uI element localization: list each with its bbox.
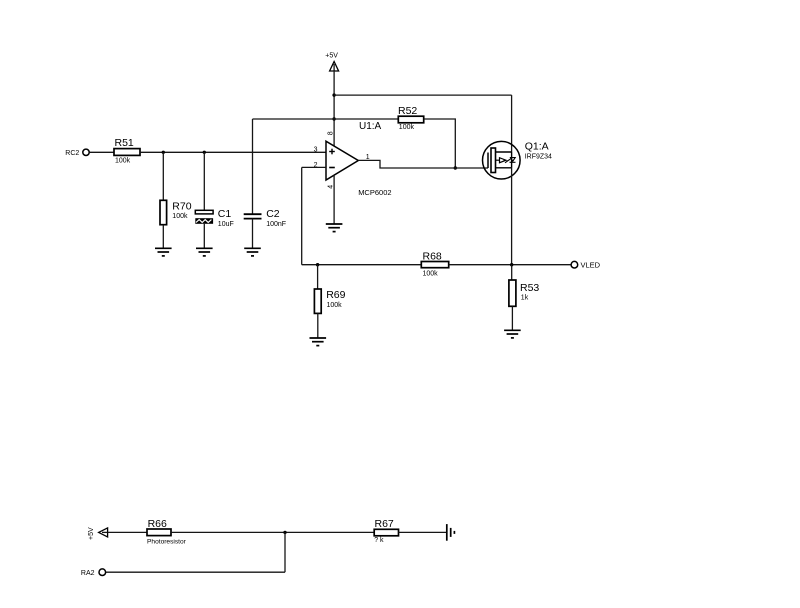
- junction VLED net / R53 / Q1 drain: [510, 263, 513, 266]
- svg-text:10uF: 10uF: [218, 221, 234, 228]
- wire +5V rail to Q1 source: [334, 94, 512, 96]
- capacitor C1: [195, 208, 233, 228]
- wire R70 top lead: [162, 152, 164, 200]
- wire R53 bottom lead: [511, 306, 513, 330]
- svg-text:R53: R53: [520, 282, 539, 294]
- svg-text:Photoresistor: Photoresistor: [147, 539, 187, 546]
- ground C1: [196, 248, 213, 256]
- svg-text:R69: R69: [326, 289, 345, 301]
- svg-text:? k: ? k: [374, 537, 384, 544]
- svg-text:IRF9Z34: IRF9Z34: [525, 154, 552, 161]
- svg-text:R68: R68: [423, 251, 442, 263]
- ground (rotated, right of R67): [447, 524, 455, 541]
- resistor R70: [160, 200, 192, 224]
- wire Q1 source lead: [511, 95, 513, 152]
- ground R70: [155, 248, 172, 256]
- svg-text:100k: 100k: [327, 302, 343, 309]
- junction input/R70: [162, 151, 165, 154]
- wire VLED net right segment: [449, 264, 571, 266]
- terminal RA2: [81, 569, 106, 577]
- wire R70 bottom lead: [162, 225, 164, 249]
- wire RA2 riser: [284, 532, 286, 572]
- terminal RC2: [65, 149, 89, 157]
- svg-text:8: 8: [328, 131, 335, 135]
- svg-text:R52: R52: [398, 105, 417, 117]
- svg-text:3: 3: [314, 147, 318, 154]
- wire input net R51 to op-amp pin 3: [140, 151, 326, 153]
- svg-text:C2: C2: [266, 208, 280, 220]
- ground C2: [244, 248, 261, 256]
- svg-text:+5V: +5V: [325, 53, 338, 60]
- op-amp U1:A: [314, 121, 392, 197]
- svg-text:R67: R67: [375, 518, 394, 530]
- transistor Q1:A IRF9Z34: [483, 141, 553, 179]
- power +5V (top): [325, 53, 338, 71]
- junction +5V rail: [332, 93, 335, 96]
- resistor R52: [398, 105, 424, 131]
- wire op-amp pin 4 to ground: [333, 175, 335, 224]
- junction R52 / output: [454, 166, 457, 169]
- resistor R53: [509, 280, 540, 306]
- svg-text:RA2: RA2: [81, 570, 95, 577]
- svg-text:100k: 100k: [423, 270, 439, 277]
- resistor R66: [147, 518, 187, 545]
- svg-text:100k: 100k: [172, 213, 188, 220]
- wire C1 top lead: [203, 152, 205, 210]
- resistor R67: [374, 518, 398, 544]
- resistor R51: [114, 137, 140, 165]
- capacitor C2: [244, 208, 286, 228]
- svg-text:VLED: VLED: [581, 261, 601, 270]
- resistor R68: [421, 251, 448, 278]
- svg-text:C1: C1: [218, 208, 232, 220]
- wire R67 to ground: [399, 531, 447, 533]
- wire RA2 horizontal: [106, 571, 285, 573]
- svg-text:U1:A: U1:A: [359, 121, 382, 132]
- svg-text:RC2: RC2: [65, 150, 79, 157]
- wire VLED net left segment: [302, 264, 422, 266]
- wire op-amp pin 2 stub: [302, 166, 326, 168]
- svg-text:1k: 1k: [521, 295, 529, 302]
- wire C2 bottom lead: [252, 219, 254, 249]
- svg-text:100k: 100k: [115, 157, 131, 164]
- junction +5V / C2 / R52: [332, 117, 335, 120]
- wire R52 to gate node: [424, 119, 456, 168]
- svg-text:100nF: 100nF: [266, 221, 286, 228]
- svg-text:100k: 100k: [399, 124, 415, 131]
- ground R69: [310, 338, 327, 346]
- wire C2 top lead (crosses input net, no junction): [252, 119, 254, 214]
- wire RC2 to R51: [89, 151, 114, 153]
- svg-text:4: 4: [327, 185, 334, 189]
- wire C1 bottom lead: [203, 224, 205, 249]
- wire op-amp output to gate: [358, 160, 488, 168]
- wire +5V to R66: [108, 531, 147, 533]
- power +5V (bottom left, pointing left): [88, 527, 108, 540]
- ground R53: [504, 330, 521, 338]
- wire R69 bottom lead: [317, 313, 319, 338]
- junction R66/R67/RA2: [283, 531, 286, 534]
- terminal VLED: [571, 261, 601, 270]
- svg-text:Q1:A: Q1:A: [525, 141, 549, 153]
- svg-text:R66: R66: [148, 518, 167, 530]
- ground op-amp: [326, 224, 343, 232]
- wire R66 to R67: [171, 531, 374, 533]
- wire +5V vertical to op-amp pin 8: [333, 71, 335, 146]
- svg-text:MCP6002: MCP6002: [358, 188, 391, 197]
- svg-text:R51: R51: [115, 137, 134, 149]
- junction VLED net / R69: [316, 263, 319, 266]
- wire Q1 drain lead to VLED net: [511, 168, 513, 265]
- resistor R69: [314, 289, 345, 313]
- svg-text:+5V: +5V: [88, 527, 95, 540]
- wire C2 to +5V node: [253, 118, 335, 120]
- wire feedback vertical (pin2 to VLED divider): [301, 167, 303, 264]
- wire R53 top lead: [511, 265, 513, 280]
- junction input/C1: [203, 151, 206, 154]
- wire +5V node to R52: [334, 118, 398, 120]
- svg-text:R70: R70: [172, 200, 191, 212]
- wire R69 top lead: [317, 265, 319, 289]
